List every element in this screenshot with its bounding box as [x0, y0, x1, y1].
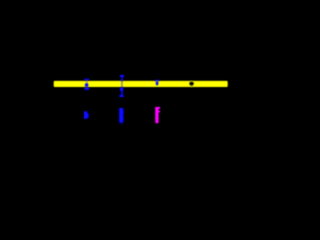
label L2 right bump lower	[122, 117, 125, 120]
marker M3 line over bar (blended)	[156, 81, 158, 86]
label L2 (blue glyph under M2)	[119, 108, 123, 123]
marker M2 stem above bar	[121, 77, 123, 81]
marker M1 top cap	[84, 79, 89, 80]
label L2 faint descender	[121, 123, 123, 126]
marker M4 black dot	[190, 82, 194, 85]
label L1 (blue glyph under M1)	[84, 111, 89, 119]
marker M1 dot	[85, 83, 89, 87]
marker M2 bottom cap	[119, 95, 123, 97]
marker M2 top cap	[120, 75, 124, 77]
marker M3 top cap	[155, 80, 160, 81]
marker M2 dot	[120, 88, 124, 92]
chromosome bar (yellow)	[54, 81, 228, 87]
marker M2 stem below bar	[121, 87, 123, 95]
label L2 right bump upper	[122, 111, 125, 114]
marker M4 line over bar (blended dark)	[190, 81, 193, 87]
marker M1 line over bar (blended lower)	[86, 83, 88, 88]
marker M1 line over bar (blended upper)	[86, 81, 88, 83]
marker M1 bottom cap	[84, 88, 89, 90]
marker M1 stem below bar	[86, 87, 88, 89]
marker M3 dot	[156, 82, 159, 85]
label L3 (magenta f-shaped glyph under M3)	[155, 107, 160, 123]
marker M4 dot halo	[189, 82, 194, 86]
marker M2 line over bar (blended)	[121, 81, 123, 88]
marker M3 stem core	[156, 81, 157, 85]
